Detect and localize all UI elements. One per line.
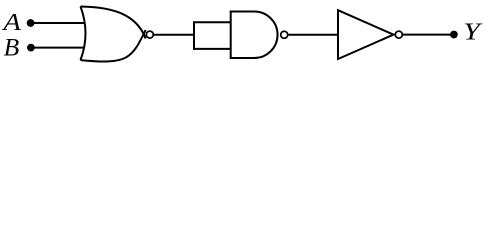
svg-text:A: A xyxy=(1,10,21,36)
svg-text:B: B xyxy=(4,34,20,61)
